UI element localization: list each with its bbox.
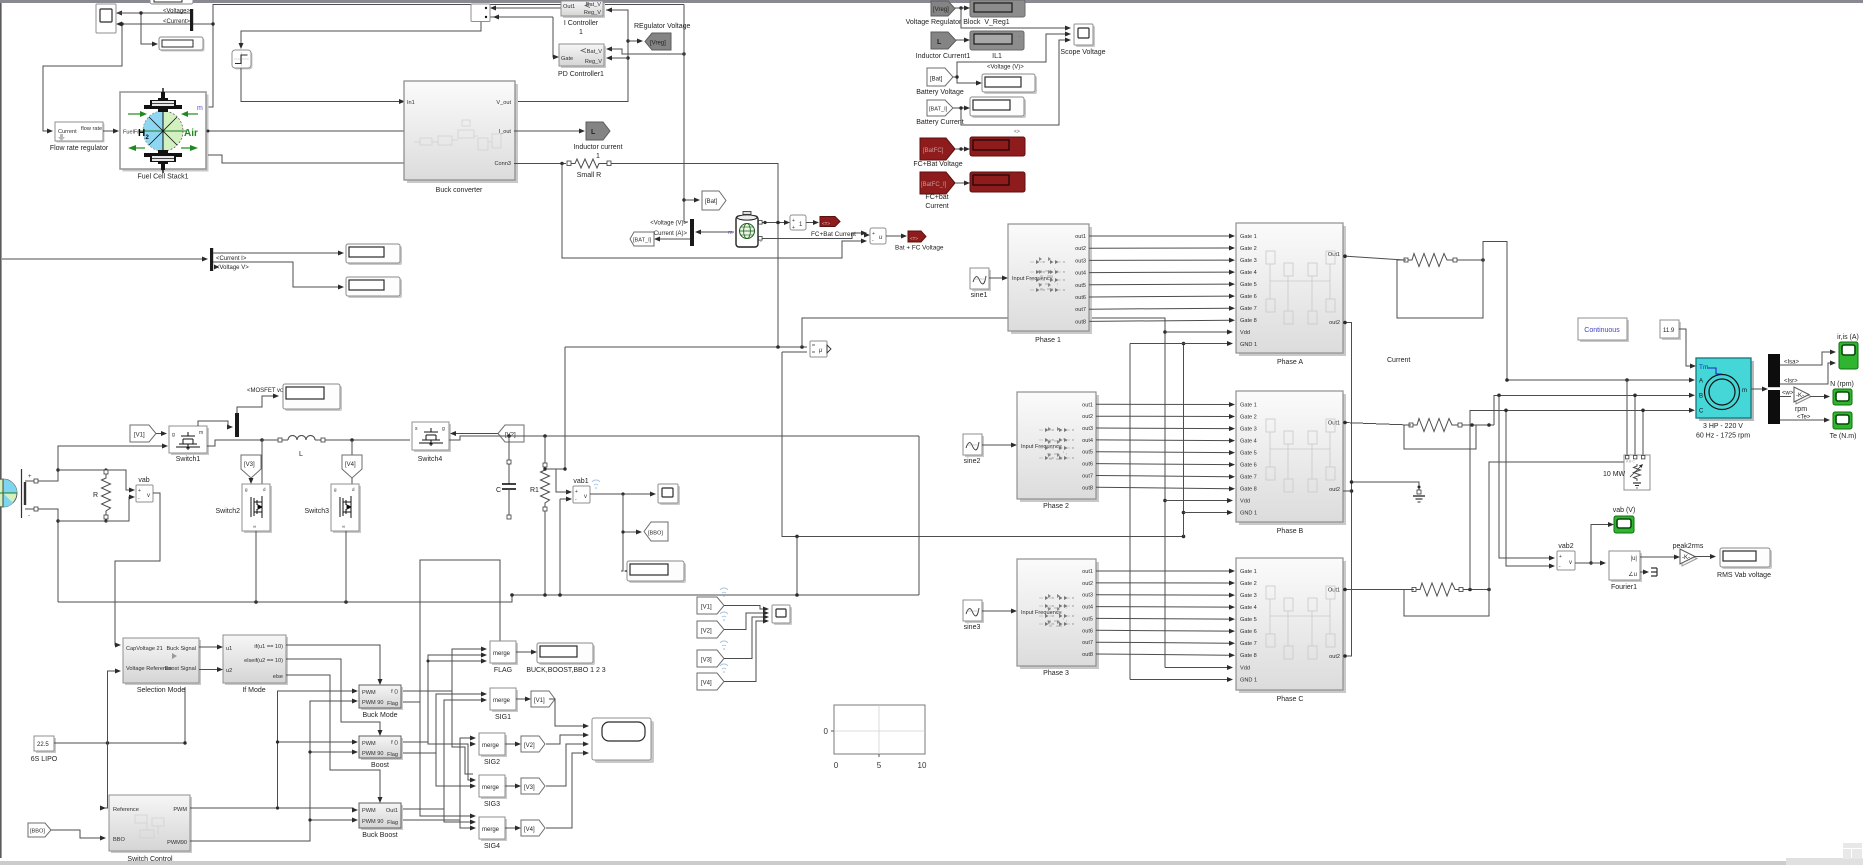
scope Te green bbox=[1833, 412, 1852, 429]
svg-text:[V4]: [V4] bbox=[524, 827, 535, 833]
svg-text:1: 1 bbox=[579, 29, 583, 36]
svg-text:PWM: PWM bbox=[173, 807, 187, 813]
svg-text:m: m bbox=[197, 105, 203, 112]
goto tag V4 right bbox=[521, 820, 545, 836]
wire gnd stub y344 bbox=[1130, 341, 1233, 346]
wire switch4 out rail to C R1 bbox=[449, 434, 919, 440]
svg-text:Out1: Out1 bbox=[1328, 588, 1340, 594]
goto tag V2 bbox=[498, 425, 524, 442]
big scope arrows bbox=[583, 724, 589, 756]
svg-text:Gate 1: Gate 1 bbox=[1240, 569, 1257, 575]
wire 22.5 to selection and switch control bbox=[54, 669, 187, 811]
sine source sine1 bbox=[970, 268, 991, 291]
svg-text:PWM: PWM bbox=[362, 808, 376, 814]
from tag BAT_I battery current bbox=[927, 100, 953, 116]
boost block bbox=[359, 736, 403, 760]
scope2 block bbox=[658, 484, 680, 505]
wire fuel cell - output to buck conn bbox=[208, 155, 404, 163]
svg-text:SIG2: SIG2 bbox=[484, 759, 500, 766]
display FC bat voltage dark red bbox=[970, 137, 1025, 156]
wire phaseC out1 to resistor C bbox=[1343, 588, 1412, 592]
wire to PD gate bbox=[490, 15, 559, 60]
wire L right to switch3 top bbox=[351, 440, 353, 484]
svg-text:Gate 5: Gate 5 bbox=[1240, 282, 1257, 288]
svg-text:out2: out2 bbox=[1329, 320, 1340, 326]
wire batfc to display bbox=[955, 147, 970, 152]
wire Te to scope bbox=[1780, 418, 1830, 423]
goto tag BAT_I left bbox=[630, 232, 654, 246]
svg-text:Switch4: Switch4 bbox=[418, 456, 443, 463]
svg-text:v: v bbox=[147, 493, 150, 499]
svg-text:g: g bbox=[172, 432, 175, 438]
wire w to gain bbox=[1780, 396, 1791, 398]
sum block 1 bbox=[784, 215, 806, 231]
svg-text:[BatFC]: [BatFC] bbox=[923, 148, 944, 154]
svg-text:out6: out6 bbox=[1082, 628, 1093, 634]
svg-text:Out1: Out1 bbox=[1328, 252, 1340, 258]
wire fourier mag to gain bbox=[1640, 555, 1680, 560]
svg-text:Reference: Reference bbox=[113, 807, 139, 813]
svg-text:Switch3: Switch3 bbox=[304, 508, 329, 515]
svg-text:[V3]: [V3] bbox=[701, 658, 712, 664]
wire vab2 plus riser bbox=[1499, 395, 1555, 560]
scope voltage block bbox=[1074, 24, 1095, 47]
svg-text:Gate 4: Gate 4 bbox=[1240, 270, 1257, 276]
svg-text:In1: In1 bbox=[407, 100, 415, 106]
svg-text:<Current I>: <Current I> bbox=[216, 256, 247, 262]
svg-text:[V3]: [V3] bbox=[524, 785, 535, 791]
from tag BBO bottom bbox=[28, 823, 51, 837]
load 10MW block bbox=[1624, 455, 1650, 490]
svg-text:R1: R1 bbox=[530, 487, 539, 494]
wire sine2 to phase2 bbox=[982, 443, 1017, 448]
svg-text:∞: ∞ bbox=[342, 524, 345, 529]
inductor L bbox=[278, 436, 325, 443]
svg-text:<w>: <w> bbox=[1782, 391, 1794, 397]
green arrows bbox=[128, 111, 198, 151]
svg-text:Switch2: Switch2 bbox=[215, 508, 240, 515]
svg-text:Buck Mode: Buck Mode bbox=[362, 712, 397, 719]
wire gain to rms display bbox=[1695, 554, 1716, 559]
wire ground branch bbox=[1350, 480, 1421, 493]
dc plus port bbox=[25, 474, 38, 483]
wire motor C riser bbox=[1470, 408, 1695, 590]
wire small R to battery net riser x778 bbox=[611, 164, 778, 348]
svg-text:Gate 4: Gate 4 bbox=[1240, 605, 1257, 611]
svg-text:<Te>: <Te> bbox=[1797, 415, 1811, 421]
wire rail into switch1 bbox=[58, 444, 168, 449]
wire sum2 to bat fc voltage tag bbox=[886, 234, 907, 239]
scope voltage wires bbox=[957, 8, 1071, 125]
small arrow under labels bbox=[214, 265, 219, 270]
wire x684 voltage sense vertical bbox=[682, 5, 685, 220]
wire gain to N scope bbox=[1810, 394, 1830, 399]
terminator bbox=[1651, 568, 1657, 576]
svg-text:else: else bbox=[273, 674, 283, 680]
wire buck conn3 to small R bbox=[514, 162, 566, 165]
svg-text:<T>: <T> bbox=[822, 221, 830, 226]
svg-text:|u|: |u| bbox=[1631, 556, 1638, 562]
svg-text:merge: merge bbox=[482, 785, 500, 791]
svg-text:GND 1: GND 1 bbox=[1240, 678, 1257, 684]
wire merge to flag display bbox=[516, 650, 537, 655]
wire I controller out1 to mux2 bbox=[490, 6, 561, 11]
wire switch4 gate from V2 bbox=[450, 431, 498, 436]
scrollbar corner bbox=[1786, 858, 1863, 865]
from tag [V2] mid column bbox=[697, 621, 724, 638]
svg-text:merge: merge bbox=[493, 651, 511, 657]
loop C rectangle bbox=[1404, 590, 1489, 617]
vab measurement block bbox=[136, 485, 153, 502]
bottom scrollbar bbox=[0, 861, 1863, 865]
svg-text:merge: merge bbox=[493, 698, 511, 704]
display current I bbox=[346, 244, 402, 265]
goto tag V1 bbox=[130, 425, 156, 442]
svg-text:<>: <> bbox=[1014, 129, 1020, 135]
svg-text:Battery Voltage: Battery Voltage bbox=[916, 89, 964, 96]
p selector block bbox=[810, 341, 831, 357]
svg-text:Gate 2: Gate 2 bbox=[1240, 581, 1257, 587]
buck boost block bbox=[359, 803, 403, 830]
svg-text:vab1: vab1 bbox=[573, 478, 588, 485]
svg-text:out1: out1 bbox=[1082, 569, 1093, 575]
goto tag Bat bbox=[702, 191, 726, 210]
svg-text:<Voltage>: <Voltage> bbox=[163, 9, 191, 15]
wire 11.9 to Tm bbox=[1679, 329, 1696, 369]
svg-text:Flag: Flag bbox=[387, 752, 398, 758]
svg-text:∠u: ∠u bbox=[1628, 571, 1637, 578]
goto tag BBO mid bbox=[644, 522, 668, 541]
wire gnd stub y679.5 bbox=[1130, 677, 1233, 682]
svg-text:f (): f () bbox=[391, 689, 398, 695]
constant 11.9 bbox=[1660, 320, 1681, 340]
dc source icon bbox=[0, 479, 17, 507]
from tag [V3] mid column bbox=[697, 650, 724, 667]
svg-text:Inductor Current1: Inductor Current1 bbox=[916, 53, 971, 60]
dc minus port bbox=[25, 507, 38, 519]
ground symbol bbox=[1413, 490, 1425, 502]
svg-text:out2: out2 bbox=[1329, 487, 1340, 493]
svg-text:Gate 8: Gate 8 bbox=[1240, 487, 1257, 493]
svg-text:Phase C: Phase C bbox=[1277, 696, 1304, 703]
svg-text:u1: u1 bbox=[226, 646, 232, 652]
svg-text:sine3: sine3 bbox=[964, 624, 981, 631]
switch control block bbox=[109, 795, 192, 853]
svg-text:<Voltage V>: <Voltage V> bbox=[216, 265, 249, 271]
wire dc minus rail bbox=[38, 509, 60, 602]
svg-text:Flag: Flag bbox=[387, 701, 398, 707]
svg-text:PD Controller1: PD Controller1 bbox=[558, 71, 604, 78]
switch1 mosfet block bbox=[169, 426, 209, 455]
asynchronous machine motor block bbox=[1696, 358, 1754, 421]
svg-text:Buck Signal: Buck Signal bbox=[166, 646, 196, 652]
svg-text:Inductor current: Inductor current bbox=[573, 144, 622, 151]
wire PWM90 riser bbox=[190, 699, 358, 842]
svg-text:PWM 90: PWM 90 bbox=[362, 700, 383, 706]
svg-text:Scope Voltage: Scope Voltage bbox=[1060, 49, 1105, 56]
merge SIG2 block bbox=[479, 733, 507, 757]
svg-text:[BAT_I]: [BAT_I] bbox=[633, 238, 652, 244]
goto tag FC+Bat current small bbox=[820, 217, 840, 227]
wire battery minus to sum2 bbox=[759, 231, 868, 241]
svg-text:elseif(u2 == 10): elseif(u2 == 10) bbox=[244, 658, 283, 664]
vab2 measurement block bbox=[1557, 551, 1575, 570]
from tag L inductor current1 bbox=[931, 32, 956, 49]
svg-text:FLAG: FLAG bbox=[494, 667, 512, 674]
svg-text:+: + bbox=[138, 488, 141, 494]
display block voltage/current bbox=[159, 37, 205, 52]
wire motor A stub bbox=[1505, 378, 1695, 383]
wire I_out to inductor current goto bbox=[514, 129, 585, 134]
svg-text:Boost: Boost bbox=[371, 762, 389, 769]
axes plot bbox=[824, 705, 927, 770]
svg-text:Vdd: Vdd bbox=[1240, 499, 1250, 505]
wire V1 to switch1 gate bbox=[156, 431, 167, 436]
fuel cell stack1 block bbox=[120, 88, 209, 173]
wires phase1 outputs to gates bbox=[1089, 236, 1230, 321]
svg-text:Current: Current bbox=[1387, 357, 1410, 364]
wire p block lower input riser bbox=[782, 352, 1185, 597]
svg-text:flow rate: flow rate bbox=[81, 126, 102, 132]
svg-text:Fourier1: Fourier1 bbox=[1611, 584, 1637, 591]
saturation block bbox=[232, 50, 253, 70]
wire demux to display1 bbox=[213, 251, 344, 256]
wire mux4 to mosfet display bbox=[237, 394, 279, 414]
svg-text:Out1: Out1 bbox=[386, 808, 398, 814]
flow rate regulator block bbox=[55, 122, 105, 143]
svg-text:Phase 1: Phase 1 bbox=[1035, 337, 1061, 344]
wire current demux to scope and flow regulator bbox=[43, 11, 213, 133]
wire resistor C right bbox=[1463, 588, 1491, 592]
svg-text:C: C bbox=[496, 487, 501, 494]
svg-text:Flag: Flag bbox=[387, 820, 398, 826]
svg-text:GND 1: GND 1 bbox=[1240, 342, 1257, 348]
svg-text:out6: out6 bbox=[1075, 295, 1086, 301]
svg-text:BUCK,BOOST,BBO 1 2 3: BUCK,BOOST,BBO 1 2 3 bbox=[526, 667, 605, 674]
vab1 measurement block bbox=[573, 486, 590, 503]
merge SIG4 block bbox=[479, 817, 507, 841]
svg-text:22.5: 22.5 bbox=[37, 742, 49, 748]
svg-text:Current: Current bbox=[925, 203, 948, 210]
goto tag Bat FC voltage small bbox=[908, 231, 926, 242]
wire phaseA out1 to resistor A bbox=[1343, 254, 1404, 260]
bottom rail bbox=[58, 593, 919, 604]
svg-text:[V2]: [V2] bbox=[701, 629, 712, 635]
svg-text:FC+bat: FC+bat bbox=[925, 194, 948, 201]
wire bat tag stub bbox=[684, 198, 700, 203]
svg-text:[V1]: [V1] bbox=[134, 433, 145, 439]
svg-text:C: C bbox=[1699, 409, 1704, 415]
svg-text:0: 0 bbox=[824, 727, 829, 736]
svg-text:Gate 1: Gate 1 bbox=[1240, 403, 1257, 409]
sine source sine2 bbox=[963, 434, 984, 457]
svg-text:[V4]: [V4] bbox=[701, 681, 712, 687]
svg-text:sine1: sine1 bbox=[971, 292, 988, 299]
svg-text:Fuel Cell Stack1: Fuel Cell Stack1 bbox=[138, 174, 189, 181]
fuel cell icon bbox=[128, 88, 198, 173]
svg-text:<Isa>: <Isa> bbox=[1784, 360, 1800, 366]
goto tag V3 right bbox=[521, 778, 545, 794]
constant 22.5 bbox=[34, 736, 56, 753]
wire batI to display bbox=[953, 106, 970, 111]
svg-text:vab (V): vab (V) bbox=[1613, 507, 1636, 514]
svg-text:+: + bbox=[575, 489, 578, 495]
wire selection to if u1 bbox=[199, 645, 223, 650]
svg-text:6S LIPO: 6S LIPO bbox=[31, 756, 58, 763]
svg-text:L: L bbox=[299, 451, 303, 458]
wire voltage demux to scope bbox=[116, 11, 190, 47]
wire vab1 branch riser x611 to y347 bus bbox=[543, 347, 775, 492]
svg-text:Boost Signal: Boost Signal bbox=[165, 666, 196, 672]
svg-text:Gate 8: Gate 8 bbox=[1240, 653, 1257, 659]
battery block bbox=[736, 212, 763, 248]
wire battery bus junction to p block bbox=[775, 345, 807, 349]
electrode stack top bbox=[144, 92, 182, 112]
svg-text:vab2: vab2 bbox=[1558, 543, 1573, 550]
svg-text:A: A bbox=[1699, 379, 1703, 385]
gnd bus vertical bbox=[1130, 342, 1185, 680]
mux bar battery bbox=[690, 219, 694, 246]
gain rpm bbox=[1794, 387, 1811, 404]
svg-text:Buck converter: Buck converter bbox=[436, 187, 483, 194]
wire BBO to switch control bbox=[51, 830, 106, 841]
wire PD bat_v input from x684 bbox=[606, 47, 686, 56]
goto tag V4 bbox=[342, 455, 362, 478]
svg-text:vab: vab bbox=[138, 477, 149, 484]
display BUCK BOOST BBO bbox=[537, 643, 595, 665]
svg-text:f (): f () bbox=[391, 740, 398, 746]
svg-text:Phase 3: Phase 3 bbox=[1043, 670, 1069, 677]
svg-text:Gate 2: Gate 2 bbox=[1240, 415, 1257, 421]
wire PD reg_v input bbox=[606, 56, 628, 61]
svg-text:[V1]: [V1] bbox=[701, 605, 712, 611]
wire gnd stub y512.5 bbox=[1184, 510, 1234, 515]
wire L to IL1 bbox=[956, 38, 970, 43]
svg-text:out7: out7 bbox=[1082, 640, 1093, 646]
svg-text:PWM: PWM bbox=[362, 741, 376, 747]
svg-text:out8: out8 bbox=[1075, 319, 1086, 325]
svg-text:Gate 7: Gate 7 bbox=[1240, 306, 1257, 312]
svg-text:10 MW: 10 MW bbox=[1603, 471, 1626, 478]
svg-text:R: R bbox=[93, 492, 98, 499]
wire fourier angle to terminator bbox=[1640, 570, 1649, 575]
svg-text:Battery Current: Battery Current bbox=[916, 119, 964, 126]
from tag [V4] mid column bbox=[697, 673, 724, 690]
wire phaseB out2 stub bbox=[1343, 490, 1352, 492]
demux bar row bbox=[210, 248, 213, 271]
svg-text:out5: out5 bbox=[1082, 450, 1093, 456]
wire if mode to buck mode action bbox=[286, 645, 383, 685]
svg-text:Gate: Gate bbox=[561, 56, 573, 62]
display voltage V bbox=[346, 277, 402, 298]
svg-text:I Controller: I Controller bbox=[564, 20, 599, 27]
svg-text:∞: ∞ bbox=[253, 524, 256, 529]
svg-text:60 Hz - 1725 rpm: 60 Hz - 1725 rpm bbox=[1696, 433, 1750, 440]
svg-text:Gate 7: Gate 7 bbox=[1240, 475, 1257, 481]
wire switch2 bottom to rail bbox=[255, 531, 257, 602]
svg-text:[V3]: [V3] bbox=[244, 462, 255, 468]
svg-text:L: L bbox=[591, 129, 596, 136]
wifi icon vab1 bbox=[592, 480, 600, 489]
switch3 mosfet block bbox=[331, 484, 361, 533]
svg-text:+: + bbox=[792, 218, 795, 224]
svg-text:Buck Boost: Buck Boost bbox=[362, 832, 397, 839]
svg-text:[Bat]: [Bat] bbox=[705, 199, 718, 205]
mux2 block bbox=[471, 4, 490, 22]
continuous powergui block bbox=[1578, 318, 1629, 342]
wire sum1 to FCBat current tag bbox=[806, 220, 819, 225]
svg-text:Gate 6: Gate 6 bbox=[1240, 629, 1257, 635]
svg-text:Switch1: Switch1 bbox=[176, 456, 201, 463]
wire isa to scope bbox=[1780, 350, 1836, 366]
svg-text:if(u1 == 10): if(u1 == 10) bbox=[254, 644, 283, 650]
wire node rail to L and switch4 bbox=[262, 438, 410, 442]
from tag Vreg right bbox=[931, 1, 955, 16]
wire node to switch2 top bbox=[261, 440, 263, 484]
svg-text:[Vreg]: [Vreg] bbox=[933, 7, 949, 13]
wire 10MW load risers bbox=[1489, 378, 1645, 589]
svg-text:+: + bbox=[792, 225, 795, 231]
svg-text:Gate 3: Gate 3 bbox=[1240, 427, 1257, 433]
PD controller1 block bbox=[559, 44, 606, 68]
svg-text:Continuous: Continuous bbox=[1584, 327, 1620, 334]
svg-text:out8: out8 bbox=[1082, 652, 1093, 658]
wire vdd bus from p riser bbox=[802, 318, 1167, 668]
svg-text:ir,is (A): ir,is (A) bbox=[1837, 334, 1859, 341]
loop B rectangle bbox=[1404, 425, 1476, 449]
svg-text:[BAT_I]: [BAT_I] bbox=[929, 107, 948, 113]
wifi icon [V1] bbox=[720, 588, 728, 597]
wire vab v down to selection mode bbox=[115, 493, 160, 648]
svg-text:out3: out3 bbox=[1075, 258, 1086, 264]
wire saturation to buck In1 bbox=[241, 68, 405, 104]
electrode stack bottom bbox=[144, 150, 182, 170]
window top bar bbox=[0, 0, 1863, 3]
svg-text:1: 1 bbox=[596, 153, 600, 160]
svg-text:out2: out2 bbox=[1082, 414, 1093, 420]
wire V4 to switch3 bbox=[351, 478, 353, 481]
svg-text:+: + bbox=[1559, 554, 1562, 560]
svg-text:Conn3: Conn3 bbox=[495, 161, 511, 167]
buck internal sketch bbox=[414, 120, 501, 150]
wire bat to display bbox=[953, 75, 982, 85]
svg-text:out4: out4 bbox=[1082, 605, 1093, 611]
resistor small R bbox=[567, 159, 611, 168]
svg-text:out4: out4 bbox=[1075, 271, 1086, 277]
wire sig2 to V2 tag bbox=[505, 742, 521, 747]
switch2 mosfet block bbox=[242, 484, 272, 533]
merge SIG1 block bbox=[490, 688, 518, 712]
merge wire bundle bbox=[403, 560, 500, 828]
svg-text:Vdd: Vdd bbox=[1240, 666, 1250, 672]
wires phase3 outputs to gates bbox=[1096, 571, 1230, 655]
svg-text:Te (N.m): Te (N.m) bbox=[1830, 433, 1857, 440]
svg-text:merge: merge bbox=[482, 743, 500, 749]
resistor C bbox=[1412, 583, 1463, 596]
wire sig4 to V4 tag bbox=[505, 826, 521, 831]
svg-text:[Vreg]: [Vreg] bbox=[650, 41, 666, 47]
from tag Bat battery voltage bbox=[927, 68, 953, 86]
merge FLAG block bbox=[490, 641, 518, 665]
I controller block bbox=[561, 1, 605, 18]
goto tag Vreg bbox=[645, 33, 671, 50]
svg-text:Out1: Out1 bbox=[1328, 421, 1340, 427]
svg-text:<Isr>: <Isr> bbox=[1784, 379, 1798, 385]
svg-text:Reg_V: Reg_V bbox=[585, 59, 602, 65]
buck mode block bbox=[359, 685, 403, 710]
subsystem Phase B bbox=[1236, 391, 1346, 525]
goto tag V1 right bbox=[531, 691, 555, 707]
